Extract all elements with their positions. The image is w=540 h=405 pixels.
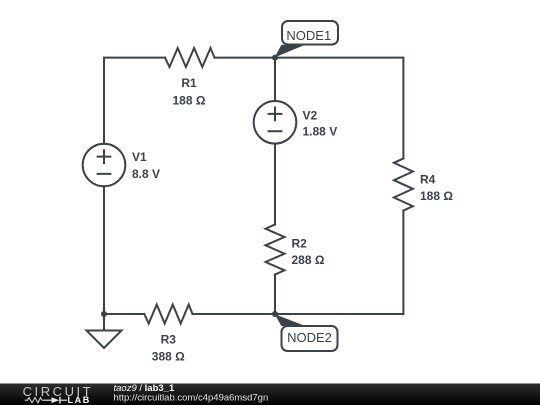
svg-text:1.88 V: 1.88 V xyxy=(303,125,338,139)
node label NODE1 xyxy=(275,21,338,57)
voltage source V1 xyxy=(83,144,126,187)
wire middle branch lower xyxy=(274,275,276,315)
svg-text:R4: R4 xyxy=(420,172,436,186)
svg-text:8.8 V: 8.8 V xyxy=(132,167,160,181)
svg-text:R3: R3 xyxy=(161,333,177,347)
svg-text:V1: V1 xyxy=(132,150,147,164)
svg-text:http://circuitlab.com/c4p49a6m: http://circuitlab.com/c4p49a6msd7gn xyxy=(114,393,269,404)
wire right rail lower xyxy=(275,211,403,315)
svg-text:188 Ω: 188 Ω xyxy=(173,94,206,108)
logo resistor squiggle xyxy=(25,398,44,403)
wire top rail left segment xyxy=(104,58,165,144)
resistor R2 xyxy=(266,225,285,275)
wire left rail lower xyxy=(103,186,105,314)
resistor R3 xyxy=(144,305,192,324)
svg-text:R2: R2 xyxy=(292,237,308,251)
wire bottom rail right segment xyxy=(193,313,276,315)
svg-text:288 Ω: 288 Ω xyxy=(292,253,325,267)
junction dot at ground xyxy=(101,311,107,317)
svg-text:188 Ω: 188 Ω xyxy=(420,189,453,203)
logo diode xyxy=(44,397,67,404)
svg-text:NODE2: NODE2 xyxy=(287,330,332,345)
wire middle branch upper xyxy=(274,58,276,101)
wire middle branch between V2 and R2 xyxy=(274,144,276,225)
resistor R1 xyxy=(165,48,215,67)
svg-text:NODE1: NODE1 xyxy=(286,28,331,43)
node NODE1 junction dot xyxy=(272,55,278,61)
svg-text:LAB: LAB xyxy=(68,395,91,405)
voltage source V2 xyxy=(254,101,297,144)
wire top rail right segment xyxy=(215,58,404,159)
node NODE2 junction dot xyxy=(272,311,278,317)
svg-text:V2: V2 xyxy=(303,109,318,123)
node label NODE2 xyxy=(275,314,338,351)
wire bottom rail left segment xyxy=(104,313,144,315)
svg-text:388 Ω: 388 Ω xyxy=(152,350,185,364)
svg-text:R1: R1 xyxy=(181,76,197,90)
ground xyxy=(87,314,122,348)
resistor R4 xyxy=(394,159,413,211)
